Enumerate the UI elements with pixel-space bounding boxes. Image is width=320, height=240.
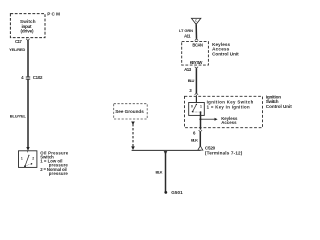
svg-text:A13: A13: [184, 67, 192, 72]
connector C102: [26, 77, 30, 79]
svg-text:0: 0: [191, 105, 193, 109]
junction node dot: [199, 118, 201, 120]
ground point G501 dot: [164, 191, 167, 194]
svg-text:C102: C102: [33, 75, 43, 80]
svg-text:1 = Key in Ignition: 1 = Key in Ignition: [207, 104, 250, 109]
ignition key switch dotted throw: [194, 111, 200, 113]
ground bus wire: [132, 149, 201, 151]
connector pin 3 terminal: [195, 93, 198, 95]
svg-text:LT GRN: LT GRN: [179, 28, 193, 33]
svg-text:G501: G501: [171, 190, 183, 195]
branch wire to keyless access: [200, 118, 214, 120]
ignition key switch box: [189, 103, 205, 116]
oil pressure switch lever: [25, 155, 29, 166]
connector pin 6 terminal: [199, 130, 202, 132]
svg-text:BLK: BLK: [191, 138, 198, 143]
svg-text:C17: C17: [15, 39, 22, 44]
wire BLU A13 to ignition switch unit: [195, 68, 197, 93]
connector A11 terminal: [195, 39, 198, 41]
wire BLK to G501: [165, 151, 167, 192]
oil pressure switch lever tip dot: [28, 155, 29, 156]
svg-text:BLU/YEL: BLU/YEL: [10, 113, 27, 118]
svg-text:(Terminals 7-12): (Terminals 7-12): [205, 151, 243, 156]
svg-text:BLK: BLK: [156, 170, 163, 175]
ignition key switch common dot: [196, 104, 197, 105]
oil pressure switch top feed tick: [27, 151, 29, 153]
connector C520 triangle: [198, 146, 203, 150]
svg-text:Control Unit: Control Unit: [212, 52, 239, 57]
svg-text:See Grounds: See Grounds: [115, 109, 144, 114]
wire contact 1 to junction: [200, 112, 202, 130]
keyless access control unit box: [182, 42, 209, 66]
svg-text:KEY SW: KEY SW: [190, 60, 203, 65]
connector A13 terminal: [195, 67, 198, 69]
dashed ground reference wire: [132, 124, 134, 147]
svg-text:PCM: PCM: [47, 12, 60, 17]
svg-text:A11: A11: [184, 33, 191, 38]
connector C17 terminal: [26, 39, 29, 41]
wire stub pin 3 into box: [195, 95, 197, 97]
arrowhead to keyless access: [215, 118, 218, 121]
svg-text:1: 1: [21, 156, 23, 160]
arrowhead below see grounds box: [131, 122, 135, 126]
wire BLK pin 6 to C520: [199, 132, 201, 148]
svg-text:Control Unit: Control Unit: [266, 104, 292, 109]
wire YEL/RED C17 to C102: [27, 40, 29, 77]
arrowhead into oil pressure switch: [26, 147, 29, 151]
oil pressure switch common contact dot: [24, 165, 26, 167]
oil pressure switch box: [19, 151, 37, 168]
oil pressure switch dotted throw: [26, 164, 31, 166]
see grounds reference box: [114, 104, 148, 119]
off-page connector C triangle: [191, 18, 201, 24]
svg-text:pressure: pressure: [49, 171, 69, 176]
svg-text:YEL/RED: YEL/RED: [9, 47, 25, 52]
oil pressure switch contact 2 dot: [31, 163, 33, 165]
svg-text:BLU: BLU: [188, 78, 195, 83]
ignition switch control unit box: [185, 96, 263, 127]
PCM module box: [10, 14, 45, 38]
arrowhead down to G501: [164, 151, 168, 155]
svg-text:(drive): (drive): [21, 29, 34, 34]
feed stub into ignition key switch: [195, 96, 197, 102]
svg-text:2: 2: [32, 156, 34, 160]
ignition key switch contact 1 dot: [200, 111, 202, 113]
svg-text:1: 1: [200, 105, 202, 109]
ignition key switch lever: [193, 104, 197, 111]
wire LT GRN to keyless unit: [195, 24, 197, 39]
svg-text:Access: Access: [221, 120, 237, 125]
svg-text:BCAN: BCAN: [192, 42, 203, 47]
arrowhead onto ground bus: [131, 146, 135, 150]
wire BLU/YEL C102 to oil pressure switch: [27, 79, 29, 147]
ignition key switch contact 0 dot: [192, 111, 194, 113]
